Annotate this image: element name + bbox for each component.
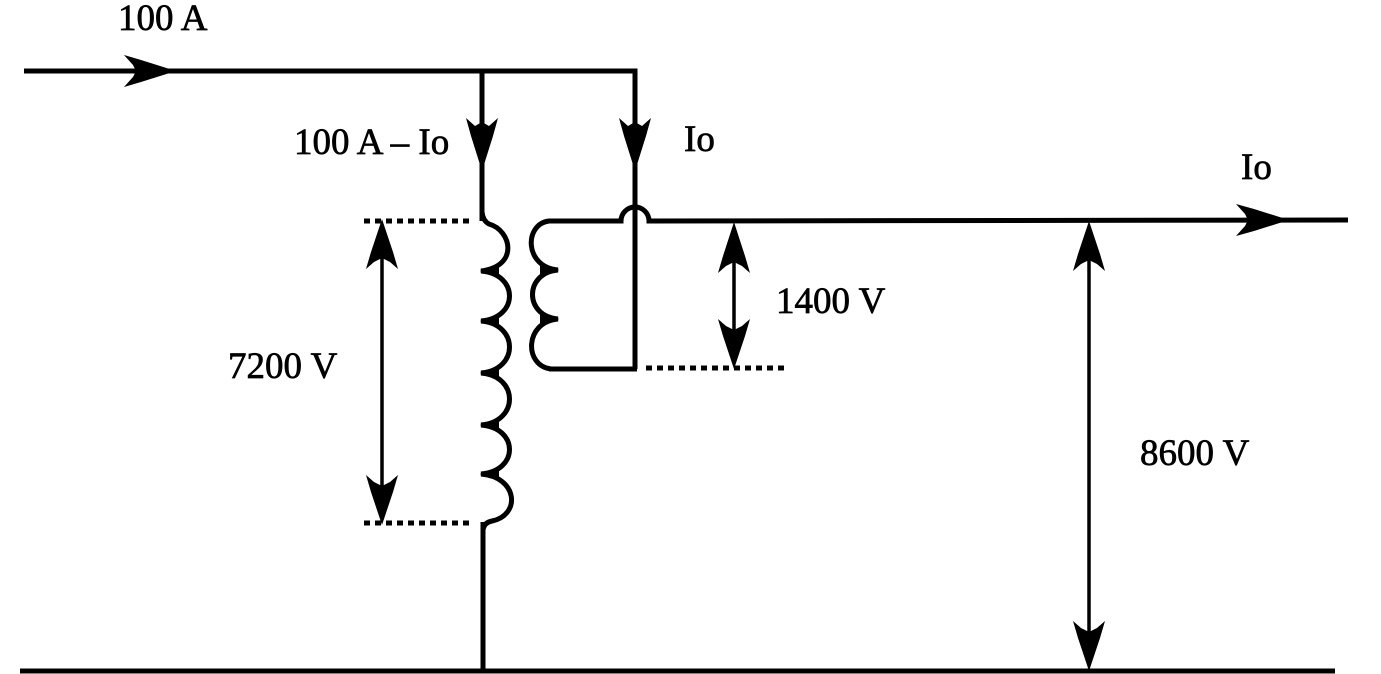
svg-text:8600 V: 8600 V [1140,433,1250,474]
inductor L1: primary winding (autotransformer series winding) [481,212,512,530]
svg-text:7200 V: 7200 V [228,346,338,387]
wire: bottom bus line [20,669,1335,674]
wire: secondary output line with hop over branch wire [554,207,1348,221]
svg-text:100 A – Io: 100 A – Io [294,122,449,163]
coil cusp L1 at y=425 [480,418,499,432]
coil cusp L2 at y=319 [540,312,559,326]
arrowhead: 100 A current direction (right) [124,55,176,87]
svg-text:Io: Io [684,119,715,160]
svg-text:Io: Io [1241,147,1272,188]
coil cusp L2 at y=270 [540,263,559,277]
svg-text:1400 V: 1400 V [776,281,886,322]
dimension arrow: 7200 V measurement [380,240,384,505]
coil cusp L1 at y=373 [480,366,499,380]
coil cusp L1 at y=474 [480,467,499,481]
dimension arrow: 8600 V measurement [1087,242,1091,650]
coil cusp L1 at y=321 [480,314,499,328]
dotted reference line: primary top [364,219,474,224]
arrowhead: Io current (down) [619,118,651,171]
dotted reference line: secondary bottom [646,366,788,371]
wire: secondary winding bottom lead [549,367,637,372]
dimension arrow: 1400 V measurement [732,245,736,348]
wire: vertical branch to primary winding [480,71,485,221]
wire: primary winding bottom to bus [481,522,486,672]
svg-text:100 A: 100 A [118,0,208,39]
dotted reference line: primary bottom [364,521,474,526]
inductor L2: secondary winding [531,221,558,369]
arrowhead: Io output (right) [1236,204,1289,236]
coil cusp L1 at y=271 [480,264,499,278]
arrowhead: 100 A - Io current (down) [466,118,498,171]
wire: main input line top, turning down at right into Io branch [24,71,635,369]
